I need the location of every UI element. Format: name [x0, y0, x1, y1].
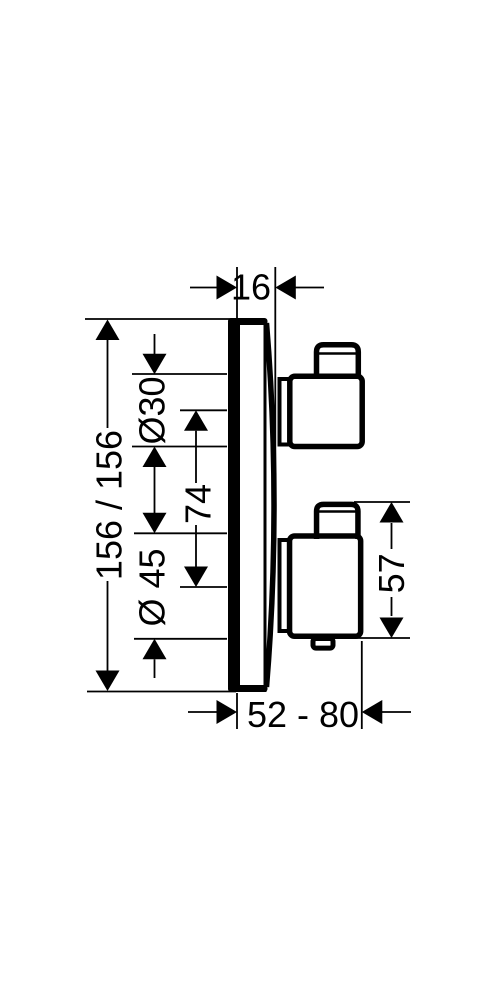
svg-text:Ø 45: Ø 45: [132, 548, 173, 626]
svg-text:Ø30: Ø30: [132, 376, 173, 444]
svg-text:74: 74: [178, 484, 219, 524]
svg-text:16: 16: [231, 267, 271, 308]
svg-text:52 - 80: 52 - 80: [247, 694, 359, 735]
svg-text:156 / 156: 156 / 156: [89, 430, 130, 580]
svg-text:57: 57: [371, 553, 412, 593]
